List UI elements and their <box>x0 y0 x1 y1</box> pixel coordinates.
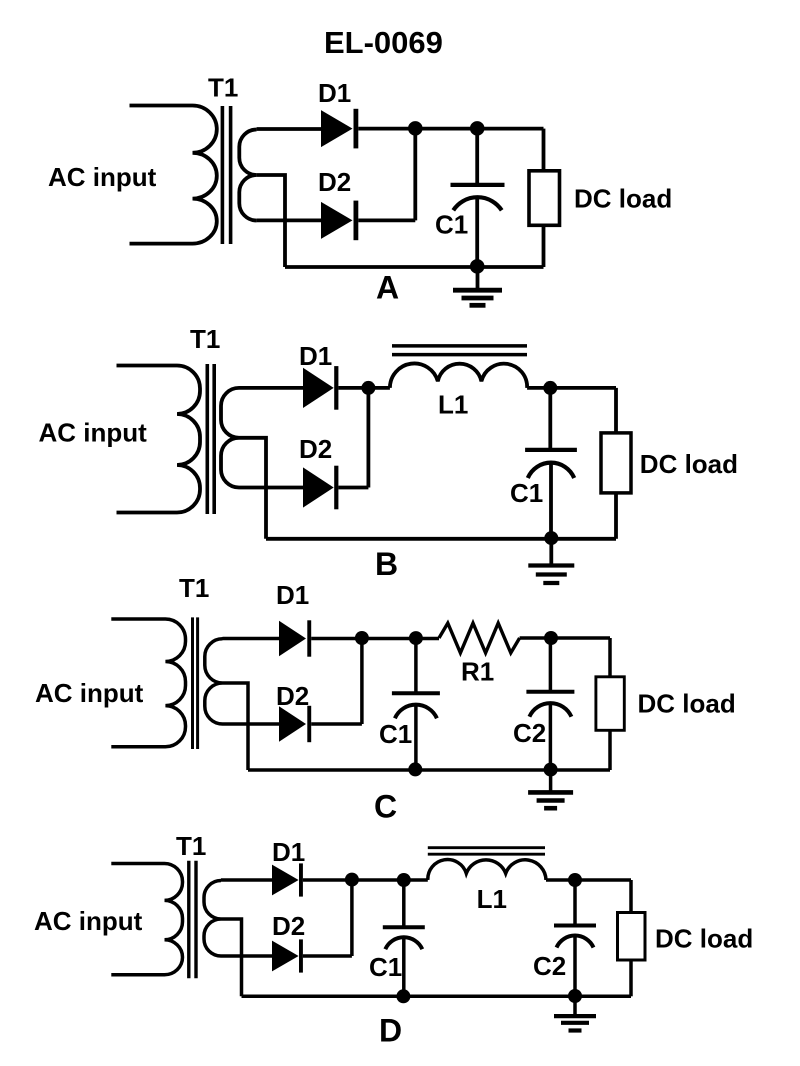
diode D1 (D) <box>272 865 299 896</box>
wire junction down to D2 output (A) <box>413 128 417 220</box>
ground symbol (C) <box>549 770 553 792</box>
diode D1 (B) <box>303 368 334 408</box>
wire DC load bottom lead (C) <box>608 730 612 770</box>
resistor DC load (C) <box>596 677 624 731</box>
capacitor C1 plate (D) <box>383 925 425 929</box>
diode D2 (C) <box>279 706 306 742</box>
wire secondary bottom to D2 (B) <box>239 486 303 490</box>
ground symbol (D) <box>573 996 577 1016</box>
svg-text:D1: D1 <box>299 341 332 371</box>
capacitor C2 plate (D) <box>554 924 596 928</box>
wire D2 to junction (A) <box>358 218 415 222</box>
diode D2 (D) <box>272 941 299 972</box>
wire C1 bottom lead (D) <box>402 938 406 997</box>
svg-text:R1: R1 <box>461 657 494 687</box>
diode D2 (A) <box>321 202 353 239</box>
wire resistor to DC load corner (C) <box>520 636 610 640</box>
wire secondary top to D1 (B) <box>239 386 303 390</box>
transformer T1 core (B) <box>207 364 214 514</box>
node junction rail/ground (B) <box>544 531 558 545</box>
node junction rail/C1 (C) <box>408 762 422 776</box>
wire center tap (C) <box>223 683 249 770</box>
svg-text:L1: L1 <box>477 884 507 914</box>
capacitor C2 curved plate (C) <box>529 703 571 717</box>
svg-text:A: A <box>376 270 399 306</box>
svg-text:D1: D1 <box>276 580 309 610</box>
diode D1 (A) <box>321 110 353 147</box>
node junction rail/ground (D) <box>568 989 582 1003</box>
svg-text:D2: D2 <box>272 911 305 941</box>
wire secondary top to D1 (C) <box>223 637 280 641</box>
svg-text:C1: C1 <box>369 952 402 982</box>
svg-text:DC load: DC load <box>574 184 672 214</box>
resistor DC load (B) <box>601 433 631 493</box>
svg-text:T1: T1 <box>190 324 220 354</box>
svg-text:D: D <box>379 1013 402 1049</box>
wire bottom rail (A) <box>285 265 544 269</box>
svg-text:C2: C2 <box>533 951 566 981</box>
wire inductor to DC load corner (B) <box>527 386 616 390</box>
node junction C1 top (A) <box>470 121 485 136</box>
svg-text:T1: T1 <box>179 573 209 603</box>
svg-text:C: C <box>374 789 397 825</box>
wire C1 bottom lead (C) <box>414 705 418 770</box>
svg-text:DC load: DC load <box>655 923 753 953</box>
node junction rail/ground (C) <box>544 763 558 777</box>
capacitor C1 plate (B) <box>525 448 577 452</box>
svg-text:DC load: DC load <box>640 449 738 479</box>
transformer T1 core (D) <box>189 861 196 979</box>
wire DC load bottom lead (B) <box>614 493 618 539</box>
wire bottom rail (C) <box>248 768 610 772</box>
svg-text:C1: C1 <box>379 719 412 749</box>
transformer T1 secondary winding (A) <box>239 130 256 221</box>
wire center tap (B) <box>239 438 266 539</box>
resistor R1 (C) <box>439 623 520 653</box>
node junction L1/C2 (D) <box>568 873 582 887</box>
wire DC load top lead (A) <box>542 129 546 171</box>
wire bottom rail (B) <box>266 537 616 541</box>
wire C1 top lead (D) <box>402 880 406 927</box>
wire D1 to DC load corner (A) <box>358 127 543 131</box>
wire secondary top to D1 (D) <box>221 878 272 882</box>
svg-text:AC input: AC input <box>39 418 148 448</box>
transformer T1 secondary winding (D) <box>204 881 221 957</box>
svg-text:D2: D2 <box>318 167 351 197</box>
svg-text:AC input: AC input <box>48 162 157 192</box>
wire secondary bottom to D2 (A) <box>257 218 321 222</box>
capacitor C1 plate (A) <box>451 183 505 187</box>
wire junction down to D2 output (B) <box>366 388 370 488</box>
wire secondary bottom to D2 (C) <box>223 722 280 726</box>
transformer T1 primary winding (A) <box>130 106 217 244</box>
node junction C1 top (C) <box>409 631 423 645</box>
wire D1 to inductor (B) <box>338 386 390 390</box>
transformer T1 secondary winding (C) <box>205 639 223 724</box>
capacitor C1 curved plate (C) <box>395 705 437 719</box>
capacitor C1 curved plate (D) <box>385 937 422 949</box>
node junction L1/C1 (B) <box>543 381 557 395</box>
node junction rail/ground (A) <box>470 259 485 274</box>
transformer T1 core (A) <box>222 106 230 244</box>
inductor L1 (D) <box>428 860 546 880</box>
wire bottom rail (D) <box>242 995 632 999</box>
wire DC load bottom lead (D) <box>629 960 633 996</box>
svg-text:AC input: AC input <box>34 906 143 936</box>
wire C1 top lead (A) <box>475 128 479 185</box>
capacitor C1 plate (C) <box>392 691 440 695</box>
inductor L1 core lines (D) <box>428 848 545 855</box>
wire D1 to inductor (D) <box>303 878 428 882</box>
wire D2 to junction (B) <box>338 486 368 490</box>
wire secondary top to D1 (A) <box>257 127 321 131</box>
transformer T1 primary winding (D) <box>111 864 182 975</box>
wire junction down to D2 output (D) <box>350 880 354 956</box>
capacitor C1 curved plate (A) <box>453 197 501 210</box>
wire D2 to junction (D) <box>303 954 352 958</box>
node junction D1/D2 (D) <box>345 873 359 887</box>
transformer T1 primary winding (C) <box>111 619 185 747</box>
svg-text:D1: D1 <box>318 78 351 108</box>
capacitor C2 plate (C) <box>526 690 574 694</box>
wire C2 top lead (D) <box>573 880 577 926</box>
inductor L1 (B) <box>390 363 527 387</box>
node junction C1 top (D) <box>397 873 411 887</box>
node junction D1/D2 (A) <box>408 121 423 136</box>
svg-text:L1: L1 <box>438 389 468 419</box>
wire DC load top lead (B) <box>614 388 618 433</box>
wire DC load top lead (C) <box>608 638 612 677</box>
wire DC load top lead (D) <box>629 880 633 913</box>
ground symbol (A) <box>476 267 480 290</box>
wire center tap (A) <box>257 175 285 267</box>
wire C2 bottom lead (D) <box>573 936 577 996</box>
wire DC load bottom lead (A) <box>542 224 546 267</box>
svg-text:EL-0069: EL-0069 <box>324 25 443 60</box>
transformer T1 core (C) <box>193 617 198 749</box>
svg-text:D2: D2 <box>299 434 332 464</box>
transformer T1 secondary winding (B) <box>221 388 239 488</box>
inductor L1 core lines (B) <box>392 346 527 355</box>
diode D2 (B) <box>303 467 334 507</box>
wire C2 top lead (C) <box>549 638 553 692</box>
node junction rail/C1 (D) <box>396 989 410 1003</box>
capacitor C1 curved plate (B) <box>528 463 574 478</box>
wire C1 bottom lead (B) <box>549 463 553 539</box>
wire secondary bottom to D2 (D) <box>221 954 272 958</box>
wire D2 to junction (C) <box>311 722 362 726</box>
node junction D1/D2 (C) <box>355 631 369 645</box>
svg-text:DC load: DC load <box>638 688 736 718</box>
wire C1 top lead (C) <box>414 638 418 693</box>
svg-text:T1: T1 <box>208 73 238 103</box>
resistor DC load (A) <box>529 171 560 226</box>
svg-text:T1: T1 <box>176 831 206 861</box>
svg-text:AC input: AC input <box>35 678 144 708</box>
diode D1 (C) <box>279 621 306 657</box>
wire C2 bottom lead (C) <box>549 703 553 770</box>
wire D1 to resistor (C) <box>311 637 439 641</box>
svg-text:C1: C1 <box>435 210 468 240</box>
wire junction down to D2 output (C) <box>360 638 364 724</box>
svg-text:C1: C1 <box>510 478 543 508</box>
svg-text:C2: C2 <box>513 718 546 748</box>
svg-text:B: B <box>375 546 398 582</box>
wire C1 top lead (B) <box>548 388 552 450</box>
transformer T1 primary winding (B) <box>117 366 201 513</box>
wire center tap (D) <box>221 919 242 996</box>
wire inductor to DC load corner (D) <box>546 878 631 882</box>
node junction D1/D2 (B) <box>361 381 375 395</box>
ground symbol (B) <box>549 539 553 566</box>
wire C1 bottom lead (A) <box>475 197 479 267</box>
capacitor C2 curved plate (D) <box>557 936 594 948</box>
svg-text:D2: D2 <box>276 681 309 711</box>
svg-text:D1: D1 <box>272 837 305 867</box>
node junction R1/C2 (C) <box>544 631 558 645</box>
resistor DC load (D) <box>618 913 646 961</box>
